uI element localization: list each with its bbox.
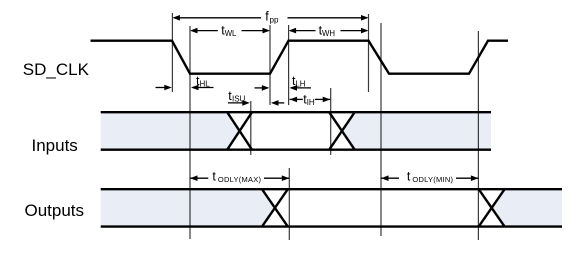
output bus bottom line (101, 225, 562, 227)
svg-text:WH: WH (322, 29, 335, 38)
dimension tIH inside arrows (290, 98, 303, 100)
measurement line L6 input hold end (330, 88, 332, 155)
svg-text:ODLY(MIN): ODLY(MIN) (412, 175, 453, 184)
svg-text:ISU: ISU (232, 95, 246, 104)
input bus crossing X2 (329, 112, 355, 150)
measurement line L2 fall1 end (189, 26, 191, 239)
dimension fpp arrow left (174, 17, 261, 19)
measurement line L8 output delay max (288, 168, 290, 240)
input bus shaded region left (101, 112, 240, 150)
measurement line L5 rise1 end (288, 25, 290, 105)
dimension tISU outside arrows (228, 102, 248, 104)
measurement line L1 first falling edge (171, 13, 173, 92)
input bus crossing X1 (227, 112, 252, 150)
svg-text:IH: IH (307, 98, 315, 107)
output bus crossing X4 (479, 189, 505, 226)
svg-text:pp: pp (270, 15, 279, 24)
dimension tWH arrows (290, 30, 316, 32)
output bus top line (101, 188, 562, 190)
input bus bottom line (101, 148, 491, 150)
measurement line L2b second falling edge (368, 14, 370, 92)
measurement line L9 second fall for output delay (380, 23, 382, 236)
dimension tODLY(MIN) arrows (381, 177, 399, 179)
svg-text:Outputs: Outputs (25, 201, 85, 220)
svg-text:WL: WL (225, 29, 237, 38)
clock waveform SD_CLK (91, 41, 509, 74)
measurement line L4 rise1 start (269, 25, 271, 105)
input bus shaded region right (342, 112, 491, 150)
input bus top line (101, 111, 491, 113)
svg-text:HL: HL (200, 79, 211, 88)
measurement line L10 output delay min end (477, 31, 479, 240)
output bus shaded region left (101, 189, 275, 226)
measurement line L3 input valid (250, 101, 252, 155)
dimension tWL arrows (192, 30, 218, 32)
output bus shaded region right (492, 189, 562, 226)
svg-text:t: t (212, 169, 216, 183)
dimension tODLY(MAX) arrows (190, 177, 208, 179)
svg-text:ODLY(MAX): ODLY(MAX) (218, 175, 262, 184)
svg-text:Inputs: Inputs (32, 136, 78, 155)
dimension tLH outside arrows (255, 87, 268, 89)
svg-text:SD_CLK: SD_CLK (23, 60, 90, 79)
svg-text:LH: LH (295, 79, 305, 88)
output bus crossing X3 (262, 189, 288, 226)
dimension tHL outside arrows (156, 87, 171, 89)
dimension fpp arrow right (288, 17, 368, 19)
svg-text:t: t (407, 169, 411, 183)
